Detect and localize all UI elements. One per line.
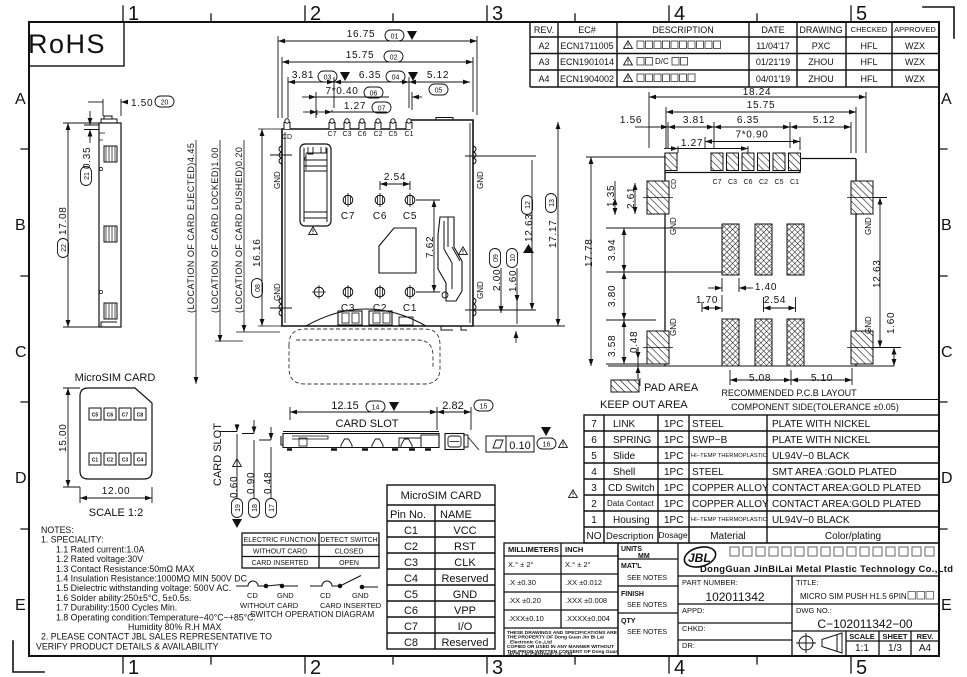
svg-text:2.82: 2.82 — [442, 400, 463, 412]
svg-text:0.35: 0.35 — [82, 147, 93, 169]
svg-text:DATE: DATE — [761, 25, 784, 35]
svg-text:16.16: 16.16 — [252, 238, 263, 267]
svg-text:03: 03 — [324, 75, 332, 82]
pcb center pads row2 — [722, 319, 804, 366]
zone ticks left — [21, 149, 29, 529]
svg-text:07: 07 — [378, 106, 386, 113]
svg-text:HFL: HFL — [860, 41, 877, 51]
svg-text:.XXX ±0.008: .XXX ±0.008 — [565, 596, 607, 605]
svg-text:18.24: 18.24 — [743, 87, 772, 98]
svg-text:RoHS: RoHS — [28, 29, 106, 59]
svg-text:CD: CD — [282, 134, 292, 141]
contact circles row2 — [312, 285, 415, 299]
svg-text:C: C — [941, 344, 953, 361]
svg-text:20: 20 — [161, 100, 169, 107]
svg-text:DESCRIPTION: DESCRIPTION — [652, 25, 714, 35]
svg-text:SEE NOTES: SEE NOTES — [627, 575, 667, 582]
zone ticks bottom — [211, 656, 757, 664]
svg-text:.XX ±0.012: .XX ±0.012 — [565, 578, 602, 587]
svg-text:HI−TEMP THERMOPLASTIC: HI−TEMP THERMOPLASTIC — [691, 453, 767, 459]
svg-text:Reserved: Reserved — [441, 573, 488, 585]
zone ticks top — [211, 14, 757, 22]
svg-text:CD: CD — [671, 179, 678, 189]
svg-text:Dosage: Dosage — [658, 530, 688, 540]
svg-text:C6: C6 — [358, 131, 367, 138]
svg-text:CARD SLOT: CARD SLOT — [336, 418, 399, 430]
svg-text:C1: C1 — [403, 303, 417, 314]
dim 17.17 (13) — [548, 219, 559, 248]
svg-text:Shell: Shell — [613, 467, 635, 478]
pcb dim 7*0.90 — [705, 137, 800, 150]
svg-text:6.35: 6.35 — [359, 70, 381, 81]
svg-text:A3: A3 — [538, 57, 549, 67]
svg-text:1.7 Durability:1500 Cycles: 1.7 Durability:1500 Cycles Min. — [56, 603, 177, 613]
svg-text:4: 4 — [674, 657, 685, 677]
company CJK name (glyph boxes) — [730, 547, 934, 556]
svg-text:C7: C7 — [341, 211, 355, 222]
svg-text:PART NUMBER:: PART NUMBER: — [682, 578, 738, 587]
svg-text:102011342: 102011342 — [705, 590, 765, 604]
front view feet — [287, 448, 431, 450]
svg-text:COPPER ALLOY: COPPER ALLOY — [692, 483, 769, 494]
flatness feature box (16) — [486, 436, 534, 452]
svg-text:6.35: 6.35 — [737, 115, 759, 126]
svg-text:E: E — [15, 597, 26, 614]
svg-text:PAD AREA: PAD AREA — [644, 382, 699, 394]
svg-text:1PC: 1PC — [664, 467, 683, 478]
svg-text:DR:: DR: — [682, 641, 695, 650]
switch diagram closed — [236, 581, 298, 588]
svg-text:KEEP OUT AREA: KEEP OUT AREA — [600, 399, 688, 411]
zone numbers bottom — [128, 657, 867, 677]
svg-text:C2: C2 — [374, 131, 383, 138]
svg-text:C7: C7 — [122, 413, 129, 419]
svg-text:VCC: VCC — [453, 525, 476, 537]
svg-text:SWITCH OPERATION DIAGRAM: SWITCH OPERATION DIAGRAM — [250, 609, 374, 619]
svg-text:DongGuan JinBiLai Metal Plasti: DongGuan JinBiLai Metal Plastic Technolo… — [700, 563, 953, 574]
svg-text:1PC: 1PC — [664, 483, 683, 494]
svg-text:APPROVED: APPROVED — [894, 25, 936, 34]
svg-text:7*0.90: 7*0.90 — [735, 130, 768, 141]
svg-text:UNITS: UNITS — [621, 546, 642, 553]
svg-text:CD: CD — [320, 591, 331, 600]
card dim 12.00 — [80, 487, 152, 503]
revision description symbols + CJK box glyphs — [624, 41, 633, 49]
svg-text:C6: C6 — [404, 605, 418, 617]
svg-text:5: 5 — [856, 657, 867, 677]
pcb dim 18.24 — [649, 92, 866, 153]
svg-text:REV.: REV. — [534, 25, 554, 35]
svg-text:0.90: 0.90 — [246, 472, 257, 494]
svg-text:2.54: 2.54 — [764, 295, 786, 306]
svg-text:5: 5 — [856, 3, 867, 25]
RoHS box — [29, 22, 124, 66]
svg-text:1.27: 1.27 — [344, 101, 366, 112]
frame corner mark top-right — [923, 7, 954, 38]
svg-text:SWP−B: SWP−B — [692, 435, 728, 446]
svg-text:GND: GND — [273, 171, 282, 189]
dimension 2.54 row1 — [380, 181, 410, 190]
svg-text:B: B — [15, 217, 26, 234]
svg-text:GND: GND — [277, 591, 294, 600]
svg-text:PXC: PXC — [812, 41, 831, 51]
svg-text:1.70: 1.70 — [696, 295, 718, 306]
svg-text:GND: GND — [864, 217, 873, 235]
zone letters right — [941, 91, 953, 614]
svg-text:NAME: NAME — [440, 509, 472, 521]
side view body — [99, 116, 121, 327]
svg-text:ELECTRIC FUNCTION: ELECTRIC FUNCTION — [244, 537, 317, 544]
svg-text:VERIFY PRODUCT DETAILS & A: VERIFY PRODUCT DETAILS & AVAILABILITY — [36, 641, 219, 651]
svg-text:OPEN: OPEN — [339, 560, 359, 567]
svg-text:GND: GND — [453, 589, 478, 601]
frame corner mark bottom-left — [13, 641, 44, 672]
svg-text:16.75: 16.75 — [347, 29, 376, 40]
svg-text:1PC: 1PC — [664, 435, 683, 446]
svg-text:GND: GND — [476, 281, 485, 299]
svg-text:1: 1 — [128, 3, 139, 25]
svg-text:1.35: 1.35 — [606, 185, 617, 207]
svg-text:GND: GND — [864, 316, 873, 334]
svg-text:ECN1904002: ECN1904002 — [560, 74, 614, 84]
svg-text:1/3: 1/3 — [888, 643, 902, 654]
svg-text:02: 02 — [390, 55, 398, 62]
right side dims 2.00 (09) 1.60 (10) — [473, 122, 565, 343]
svg-text:(LOCATION OF CARD EJECTED)4: (LOCATION OF CARD EJECTED)4.45 — [186, 143, 196, 313]
svg-text:EC#: EC# — [578, 25, 596, 35]
svg-text:A: A — [15, 91, 26, 108]
svg-text:18: 18 — [252, 504, 259, 512]
dim 12.15 (14) / 2.82 (15) — [290, 407, 471, 430]
dimension 17.08 (22) — [63, 123, 99, 327]
svg-text:D: D — [15, 470, 27, 487]
svg-text:C3: C3 — [343, 131, 352, 138]
pcb center pads row1 — [722, 224, 804, 275]
contact circles row1 — [343, 193, 415, 207]
svg-text:ECN1711005: ECN1711005 — [560, 41, 613, 51]
svg-text:5.10: 5.10 — [811, 373, 833, 384]
top view dims 3.81 (03) / 6.35 (04) / 5.12 (05) — [288, 77, 470, 118]
svg-text:7.62: 7.62 — [425, 236, 436, 258]
svg-text:C5: C5 — [404, 589, 418, 601]
pcb GND labels — [669, 217, 873, 336]
svg-text:12.63: 12.63 — [872, 259, 883, 288]
svg-text:1.5 Dielectric withstanding: 1.5 Dielectric withstanding voltage: 500… — [56, 583, 231, 593]
svg-text:QTY: QTY — [621, 618, 636, 625]
svg-text:CD: CD — [247, 591, 258, 600]
svg-text:C7: C7 — [404, 621, 418, 633]
svg-text:SCALE 1:2: SCALE 1:2 — [89, 507, 143, 519]
svg-text:UL94V−0 BLACK: UL94V−0 BLACK — [772, 451, 850, 462]
svg-text:WZX: WZX — [905, 74, 925, 84]
svg-text:C6: C6 — [107, 413, 114, 419]
svg-text:HI−TEMP THERMOPLASTIC: HI−TEMP THERMOPLASTIC — [691, 517, 767, 523]
svg-text:12: 12 — [525, 201, 532, 209]
svg-text:3: 3 — [492, 657, 503, 677]
svg-text:17.78: 17.78 — [584, 238, 595, 267]
svg-text:2: 2 — [310, 3, 321, 25]
svg-text:WITHOUT CARD: WITHOUT CARD — [253, 549, 307, 556]
svg-text:01: 01 — [391, 34, 399, 41]
svg-text:STEEL: STEEL — [692, 419, 724, 430]
svg-text:C4: C4 — [137, 458, 144, 464]
svg-text:SMT AREA :GOLD PLATED: SMT AREA :GOLD PLATED — [772, 467, 897, 478]
svg-text:APPD:: APPD: — [682, 606, 705, 615]
svg-text:5.08: 5.08 — [749, 373, 771, 384]
svg-text:Jin Bi Lai Electronic Co.,Ltd: Jin Bi Lai Electronic Co.,Ltd — [507, 652, 572, 658]
svg-text:1.56: 1.56 — [620, 115, 642, 126]
svg-text:1.40: 1.40 — [755, 282, 777, 293]
svg-text:GND: GND — [669, 318, 678, 336]
svg-text:C1: C1 — [92, 458, 99, 464]
svg-text:A: A — [941, 91, 952, 108]
GND tabs right — [465, 146, 536, 316]
svg-text:3.81: 3.81 — [683, 115, 705, 126]
svg-text:REV.: REV. — [917, 632, 934, 641]
svg-text:C2: C2 — [107, 458, 114, 464]
svg-text:C6: C6 — [744, 179, 753, 186]
svg-text:1.4 Insulation Resistance:10: 1.4 Insulation Resistance:1000MΩ MIN 500… — [56, 574, 248, 584]
svg-text:C6: C6 — [373, 211, 387, 222]
svg-text:TITLE:: TITLE: — [796, 578, 819, 587]
svg-text:.X ±0.30: .X ±0.30 — [508, 578, 536, 587]
zone numbers top — [128, 3, 867, 25]
svg-text:2. PLEASE CONTACT JBL SALES: 2. PLEASE CONTACT JBL SALES REPRESENTATI… — [41, 632, 272, 642]
svg-text:1.8 Operating condition:Temp: 1.8 Operating condition:Temperature−40°C… — [56, 612, 256, 622]
svg-text:.XX ±0.20: .XX ±0.20 — [508, 596, 541, 605]
pcb dim 1.27 — [664, 146, 748, 153]
svg-text:HFL: HFL — [860, 74, 877, 84]
svg-text:Reserved: Reserved — [441, 637, 488, 649]
svg-text:6: 6 — [591, 435, 597, 446]
svg-text:CHECKED: CHECKED — [851, 25, 888, 34]
svg-text:RECOMMENDED P.C.B LAYOUT: RECOMMENDED P.C.B LAYOUT — [721, 388, 857, 398]
svg-text:.XXX±0.10: .XXX±0.10 — [508, 614, 544, 623]
svg-text:15.00: 15.00 — [58, 423, 69, 452]
svg-text:FINISH: FINISH — [621, 591, 644, 598]
svg-text:.XXXX±0.004: .XXXX±0.004 — [565, 614, 610, 623]
svg-text:GND: GND — [273, 283, 282, 301]
svg-text:Color/plating: Color/plating — [825, 531, 881, 542]
svg-text:C7: C7 — [328, 131, 337, 138]
pcb right dims 12.63 / 1.60 — [873, 198, 901, 367]
svg-text:0.10: 0.10 — [509, 440, 530, 452]
svg-text:C5: C5 — [403, 211, 417, 222]
svg-text:X.° ± 2°: X.° ± 2° — [565, 560, 591, 569]
svg-text:08: 08 — [255, 284, 262, 292]
svg-text:CLOSED: CLOSED — [335, 549, 364, 556]
svg-text:17: 17 — [269, 504, 276, 512]
svg-text:10: 10 — [510, 254, 517, 262]
svg-text:7*0.40: 7*0.40 — [325, 86, 358, 97]
svg-text:4: 4 — [674, 3, 685, 25]
svg-text:Pin No.: Pin No. — [390, 509, 426, 521]
svg-text:1.60: 1.60 — [508, 270, 519, 292]
svg-text:STEEL: STEEL — [692, 467, 724, 478]
svg-text:Slide: Slide — [613, 451, 636, 462]
pad area legend — [611, 380, 639, 392]
svg-text:Housing: Housing — [613, 515, 650, 526]
svg-text:17.17: 17.17 — [548, 219, 559, 248]
svg-text:UL94V−0 BLACK: UL94V−0 BLACK — [772, 515, 850, 526]
svg-text:2.61: 2.61 — [626, 187, 637, 209]
svg-text:13: 13 — [549, 199, 556, 207]
svg-text:C5: C5 — [389, 131, 398, 138]
svg-text:C3: C3 — [341, 303, 355, 314]
svg-text:01/21'19: 01/21'19 — [756, 57, 790, 67]
svg-text:CARD INSERTED: CARD INSERTED — [251, 560, 308, 567]
front view body — [281, 432, 479, 451]
svg-text:12.00: 12.00 — [102, 486, 131, 497]
svg-text:GND: GND — [476, 171, 485, 189]
svg-text:A4: A4 — [538, 74, 549, 84]
svg-text:MicroSIM CARD: MicroSIM CARD — [75, 372, 156, 384]
svg-text:MicroSIM CARD: MicroSIM CARD — [401, 490, 482, 502]
revision table — [530, 22, 939, 87]
notes text — [36, 525, 272, 651]
svg-text:ECN1901014: ECN1901014 — [560, 57, 614, 67]
svg-text:CONTACT AREA:GOLD PLATED: CONTACT AREA:GOLD PLATED — [772, 499, 921, 510]
svg-text:A4: A4 — [919, 643, 932, 654]
svg-text:SCALE: SCALE — [849, 632, 874, 641]
svg-text:22: 22 — [61, 244, 68, 252]
svg-text:C: C — [15, 344, 27, 361]
pcb corner GND pads — [643, 181, 877, 364]
svg-text:4: 4 — [591, 467, 597, 478]
svg-text:COMPONENT SIDE(TOLERANCE ±0.05: COMPONENT SIDE(TOLERANCE ±0.05) — [731, 402, 899, 412]
svg-text:1.2 Rated voltage:30V: 1.2 Rated voltage:30V — [56, 554, 143, 564]
svg-text:C2: C2 — [759, 179, 768, 186]
svg-text:CHKD:: CHKD: — [682, 624, 705, 633]
svg-text:3.80: 3.80 — [607, 285, 618, 307]
svg-text:MICRO SIM PUSH H1.5 6PIN: MICRO SIM PUSH H1.5 6PIN — [800, 592, 907, 601]
svg-text:C3: C3 — [122, 458, 129, 464]
svg-text:15: 15 — [480, 404, 488, 411]
svg-text:CONTACT AREA:GOLD PLATED: CONTACT AREA:GOLD PLATED — [772, 483, 921, 494]
dimension 16.16 (08) — [258, 129, 282, 326]
zone number bars top — [123, 6, 851, 22]
svg-text:MAT'L: MAT'L — [621, 563, 642, 570]
svg-text:2: 2 — [591, 499, 597, 510]
svg-text:NO: NO — [587, 531, 602, 542]
svg-text:Data Contact: Data Contact — [607, 499, 654, 508]
svg-text:3.94: 3.94 — [607, 239, 618, 261]
left rotated CARD SLOT label — [212, 423, 224, 486]
svg-text:I/O: I/O — [458, 621, 473, 633]
zone number bars bottom — [123, 656, 851, 673]
svg-text:1PC: 1PC — [664, 419, 683, 430]
location reference lines — [196, 140, 280, 384]
location labels — [186, 143, 244, 313]
svg-text:15.75: 15.75 — [346, 50, 375, 61]
svg-text:CD Switch: CD Switch — [608, 483, 655, 494]
dimension 7.62 — [416, 200, 440, 292]
svg-text:5.12: 5.12 — [813, 115, 835, 126]
dims 0.60 (19) 0.90 (18) 0.48 (17) — [219, 420, 271, 498]
pcb dims 1.56 3.81 6.35 5.12 — [635, 122, 851, 153]
svg-text:2.00: 2.00 — [492, 269, 503, 291]
svg-text:GND: GND — [352, 591, 369, 600]
svg-text:Description: Description — [606, 531, 654, 542]
zone ticks right — [939, 149, 947, 529]
svg-text:1:1: 1:1 — [855, 643, 869, 654]
top terminal pins — [284, 119, 412, 129]
svg-text:1PC: 1PC — [664, 515, 683, 526]
svg-text:PLATE WITH NICKEL: PLATE WITH NICKEL — [772, 419, 871, 430]
svg-text:C8: C8 — [137, 413, 144, 419]
svg-text:C7: C7 — [713, 179, 722, 186]
svg-text:SPRING: SPRING — [613, 435, 652, 446]
svg-text:DETECT SWITCH: DETECT SWITCH — [320, 537, 377, 544]
bottom card arc and contacts — [306, 309, 426, 326]
pin labels — [282, 131, 414, 141]
svg-text:06: 06 — [370, 91, 378, 98]
svg-text:C3: C3 — [728, 179, 737, 186]
svg-text:SEE NOTES: SEE NOTES — [627, 629, 667, 636]
svg-text:1.3 Contact Resistance:50mΩ: 1.3 Contact Resistance:50mΩ MAX — [56, 564, 195, 574]
svg-text:MM: MM — [638, 553, 650, 560]
svg-text:1. SPECIALITY:: 1. SPECIALITY: — [41, 535, 104, 545]
top view dim 7*0.40 (06) — [302, 92, 422, 118]
card pads — [89, 408, 146, 465]
svg-text:C5: C5 — [775, 179, 784, 186]
svg-text:17.08: 17.08 — [58, 206, 69, 235]
svg-text:C1: C1 — [404, 525, 418, 537]
projection symbol — [796, 633, 842, 653]
svg-text:2: 2 — [310, 657, 321, 677]
svg-text:C1: C1 — [790, 179, 799, 186]
svg-text:5: 5 — [591, 451, 597, 462]
latch mechanism — [438, 217, 462, 301]
GND labels — [273, 171, 485, 301]
svg-text:1: 1 — [128, 657, 139, 677]
company logo — [682, 544, 718, 571]
svg-text:3: 3 — [591, 483, 597, 494]
svg-text:1.1 Rated current:1.0A: 1.1 Rated current:1.0A — [56, 544, 145, 554]
svg-text:A2: A2 — [538, 41, 549, 51]
svg-text:CARD SLOT: CARD SLOT — [212, 423, 224, 486]
svg-text:09: 09 — [493, 254, 500, 262]
svg-text:21: 21 — [84, 172, 91, 180]
svg-text:Material: Material — [710, 531, 746, 542]
svg-text:SHEET: SHEET — [882, 632, 907, 641]
svg-text:1.50: 1.50 — [131, 98, 153, 109]
svg-text:0.48: 0.48 — [629, 331, 640, 353]
svg-text:WZX: WZX — [905, 57, 925, 67]
svg-text:C4: C4 — [404, 573, 418, 585]
svg-text:1: 1 — [591, 515, 597, 526]
svg-text:SEE NOTES: SEE NOTES — [627, 602, 667, 609]
svg-text:C2: C2 — [404, 541, 418, 553]
switch diagram open — [310, 576, 378, 589]
svg-text:2.54: 2.54 — [384, 172, 406, 183]
dim 12.63 (12) — [524, 213, 535, 242]
svg-text:05: 05 — [435, 88, 443, 95]
svg-text:(LOCATION OF CARD LOCKED)1.: (LOCATION OF CARD LOCKED)1.00 — [210, 147, 220, 313]
svg-text:(LOCATION OF CARD PUSHED)0.: (LOCATION OF CARD PUSHED)0.20 — [234, 147, 244, 313]
svg-text:C3: C3 — [404, 557, 418, 569]
svg-text:C2: C2 — [373, 303, 387, 314]
svg-text:15.75: 15.75 — [747, 100, 776, 111]
svg-text:WZX: WZX — [905, 41, 925, 51]
svg-text:INCH: INCH — [565, 545, 583, 554]
svg-text:1.27: 1.27 — [681, 138, 703, 149]
svg-text:GND: GND — [669, 217, 678, 235]
dimension 0.35 (21) — [84, 111, 99, 143]
zone letters left — [15, 91, 27, 614]
svg-text:RST: RST — [454, 541, 476, 553]
card dim 15.00 — [63, 388, 80, 487]
